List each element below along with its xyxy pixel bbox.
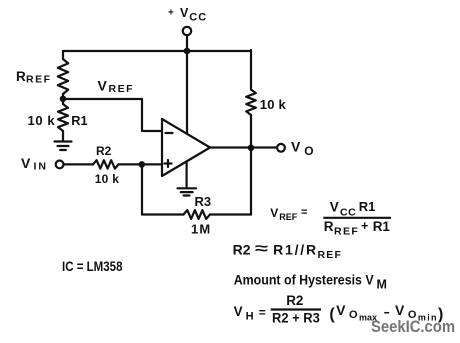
svg-text:CC: CC [189, 11, 207, 23]
svg-text:R3: R3 [195, 194, 212, 209]
svg-text:M: M [377, 278, 387, 292]
svg-text:Amount of Hysteresis V: Amount of Hysteresis V [234, 273, 375, 288]
svg-text:V: V [330, 200, 339, 215]
svg-text:H: H [246, 311, 254, 323]
svg-text:V: V [180, 6, 189, 20]
svg-text:+: + [361, 219, 368, 233]
svg-text:R1: R1 [373, 219, 391, 234]
svg-text:R: R [16, 69, 26, 84]
svg-text:R1: R1 [359, 199, 376, 214]
svg-text:CC: CC [340, 206, 356, 218]
svg-text:REF: REF [26, 73, 52, 85]
svg-text:=: = [259, 306, 266, 320]
svg-text:R: R [324, 219, 334, 234]
svg-text:O: O [304, 144, 313, 158]
svg-text:REF: REF [334, 226, 359, 238]
svg-text:V: V [98, 78, 108, 94]
svg-text:10 k: 10 k [260, 97, 287, 112]
svg-text:SeekIC.com: SeekIC.com [371, 318, 455, 336]
svg-text:IN: IN [34, 160, 49, 172]
svg-text:REF: REF [109, 83, 135, 95]
svg-text:R1: R1 [71, 113, 87, 128]
svg-text:REF: REF [279, 212, 298, 222]
svg-text:(: ( [329, 306, 335, 323]
svg-text:O: O [349, 309, 358, 321]
svg-text:R2: R2 [233, 241, 251, 257]
svg-text:V: V [395, 302, 405, 318]
svg-text:R2: R2 [96, 144, 112, 158]
svg-text:REF: REF [318, 249, 343, 261]
svg-text:=: = [301, 207, 307, 219]
svg-text:R2 + R3: R2 + R3 [272, 311, 320, 326]
svg-text:+: + [168, 7, 174, 18]
svg-text:V: V [270, 206, 278, 220]
svg-text:V: V [291, 139, 301, 155]
svg-text:-: - [384, 304, 391, 319]
svg-text:10 k: 10 k [95, 172, 120, 186]
svg-text:≈: ≈ [255, 241, 269, 258]
svg-text:V: V [336, 302, 346, 318]
svg-text:IC = LM358: IC = LM358 [62, 259, 123, 274]
svg-text:1M: 1M [191, 221, 211, 236]
svg-text:V: V [21, 155, 31, 171]
svg-text:V: V [234, 304, 243, 319]
svg-text:R2: R2 [286, 293, 303, 308]
svg-text:R1//R: R1//R [273, 241, 318, 257]
svg-text:10 k: 10 k [28, 113, 56, 128]
